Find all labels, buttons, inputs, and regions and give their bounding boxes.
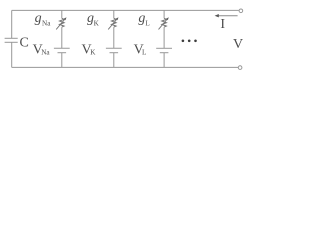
svg-text:Na: Na bbox=[41, 48, 50, 56]
wire bottom bbox=[12, 66, 238, 68]
svg-text:L: L bbox=[142, 48, 146, 56]
wire left lower bbox=[11, 43, 13, 68]
arrowhead gNa bbox=[64, 17, 67, 20]
node terminal bottom bbox=[238, 66, 242, 70]
svg-text:L: L bbox=[145, 19, 149, 27]
svg-text:I: I bbox=[220, 17, 225, 32]
variable arrow gL bbox=[159, 19, 168, 30]
svg-text:C: C bbox=[20, 36, 29, 51]
svg-text:K: K bbox=[90, 48, 96, 56]
wire L branch middle bbox=[163, 27, 165, 48]
wire Na branch lower bbox=[61, 53, 63, 68]
arrowhead gK bbox=[116, 17, 119, 20]
wire K branch upper bbox=[113, 10, 115, 18]
resistor gL bbox=[162, 18, 167, 27]
svg-text:g: g bbox=[138, 11, 145, 26]
wire K branch middle bbox=[113, 27, 115, 48]
svg-text:g: g bbox=[35, 11, 42, 26]
wire K branch lower bbox=[113, 53, 115, 68]
arrowhead gL bbox=[166, 17, 169, 20]
battery VNa bbox=[54, 47, 70, 49]
ellipsis dots bbox=[182, 40, 197, 43]
wire Na branch middle bbox=[61, 27, 63, 48]
wire top bbox=[12, 9, 239, 11]
current arrow I bbox=[215, 14, 238, 17]
resistor gK bbox=[112, 18, 117, 27]
wire Na branch upper bbox=[61, 10, 63, 18]
svg-text:Na: Na bbox=[42, 19, 51, 27]
resistor gNa bbox=[60, 18, 65, 27]
svg-text:K: K bbox=[94, 19, 100, 27]
wire L branch upper bbox=[163, 10, 165, 18]
variable arrow gNa bbox=[56, 19, 65, 30]
node terminal top bbox=[239, 9, 243, 13]
battery VK bbox=[106, 47, 122, 49]
labels bbox=[20, 11, 244, 58]
battery VL bbox=[156, 47, 172, 49]
svg-text:V: V bbox=[233, 37, 243, 52]
capacitor C bbox=[5, 37, 18, 39]
wire left upper bbox=[11, 10, 13, 38]
variable arrow gK bbox=[108, 19, 117, 30]
wire L branch lower bbox=[163, 53, 165, 68]
